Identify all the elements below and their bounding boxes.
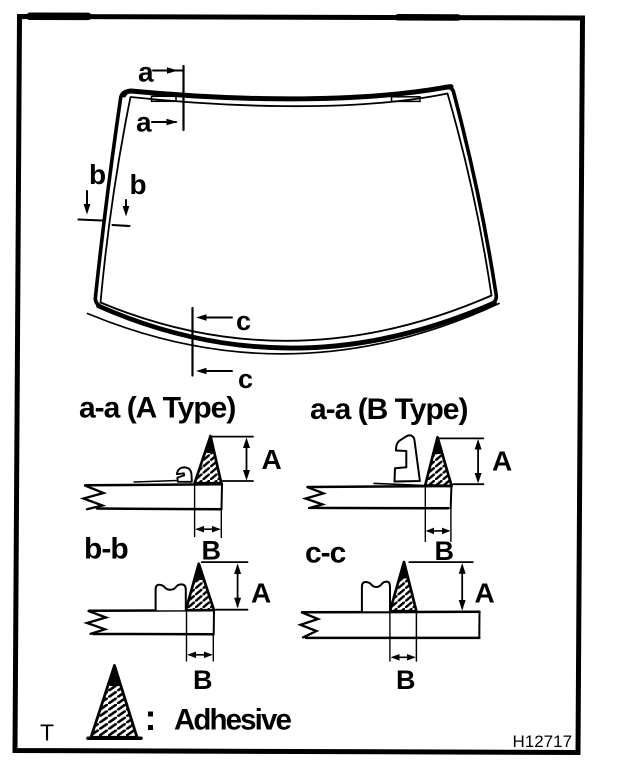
svg-text:A: A	[251, 578, 271, 609]
svg-text:b: b	[130, 169, 147, 200]
svg-text:a-a (B Type): a-a (B Type)	[310, 393, 467, 426]
svg-text::: :	[145, 697, 157, 738]
svg-text:A: A	[475, 578, 495, 609]
svg-text:Adhesive: Adhesive	[174, 704, 291, 737]
svg-text:a: a	[138, 57, 154, 88]
svg-text:b: b	[89, 159, 106, 190]
svg-text:T: T	[40, 720, 54, 746]
svg-text:a: a	[136, 107, 152, 138]
svg-text:A: A	[262, 444, 282, 475]
svg-text:H12717: H12717	[513, 732, 573, 751]
svg-text:b-b: b-b	[84, 533, 128, 566]
svg-text:c: c	[236, 306, 251, 336]
svg-text:B: B	[396, 665, 416, 695]
svg-text:c: c	[238, 364, 253, 394]
svg-text:B: B	[193, 665, 213, 695]
svg-text:A: A	[492, 446, 512, 477]
svg-text:B: B	[202, 536, 222, 566]
svg-text:c-c: c-c	[305, 537, 346, 570]
svg-text:a-a (A Type): a-a (A Type)	[79, 392, 235, 425]
